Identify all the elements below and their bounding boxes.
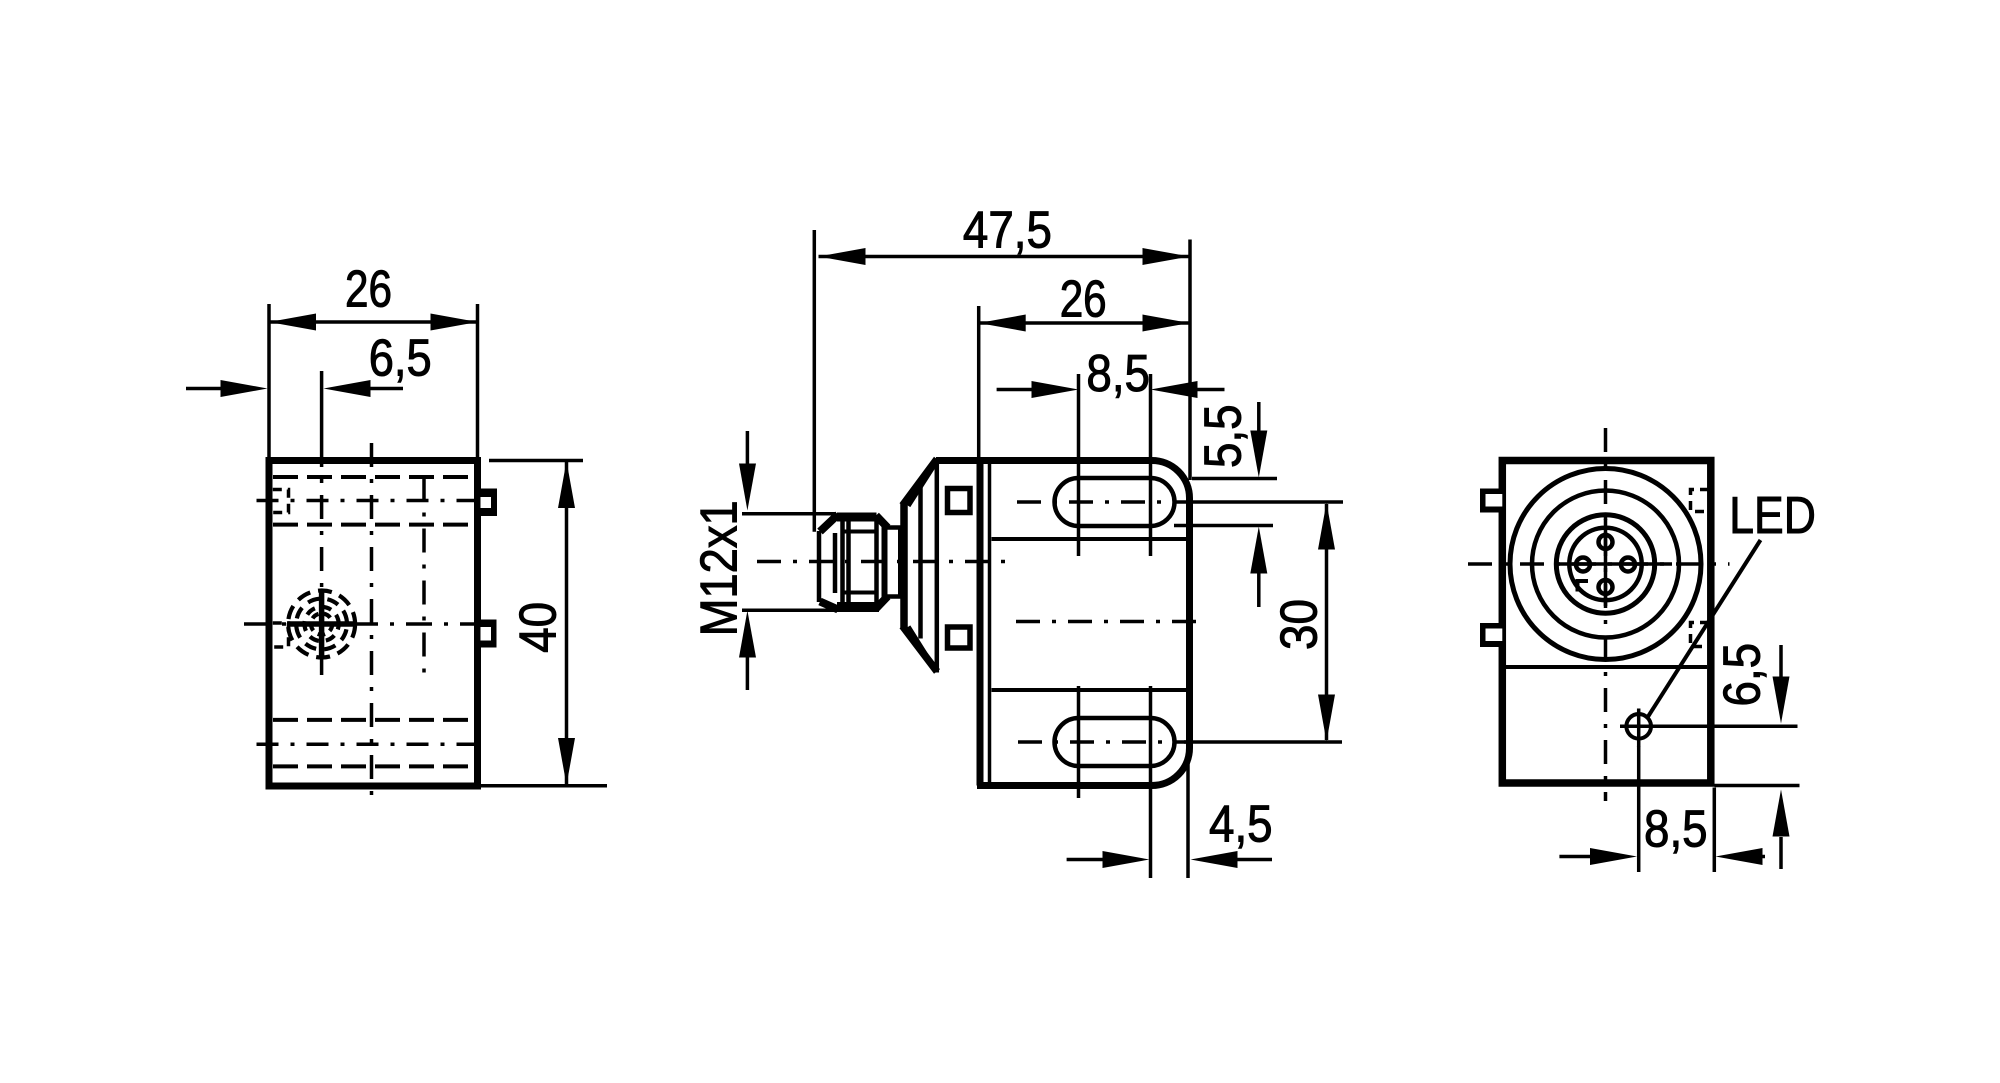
M12 nut chamfer diagonals xyxy=(820,515,888,610)
solid tab lower right edge xyxy=(478,620,497,648)
bracket left edge xyxy=(977,461,984,786)
dim 4.5 extension lines xyxy=(1186,758,1190,878)
hidden edge (dashed) upper xyxy=(273,475,475,479)
dim M12x1 arrows xyxy=(746,431,750,466)
rear view box xyxy=(1502,461,1711,784)
centerline vertical right xyxy=(422,477,426,674)
hidden edge (dashed) lower 2 xyxy=(273,764,475,768)
connector cap inner vertical xyxy=(918,479,923,639)
dim 26 line xyxy=(269,320,478,324)
dim 30 line xyxy=(1325,504,1329,740)
dim 26 extension line xyxy=(977,306,981,458)
M12 nut top/bottom faces xyxy=(837,517,877,607)
M12 nut right band xyxy=(882,527,888,597)
svg-text:LED: LED xyxy=(1729,486,1816,544)
connector circle inner xyxy=(1569,528,1641,600)
dim 6.5 arrow to centerline xyxy=(370,387,403,391)
circle center cross xyxy=(287,589,356,659)
mounting slot upper (obround) xyxy=(1055,478,1175,526)
small square lower xyxy=(948,627,971,648)
connector pins xyxy=(1599,535,1613,549)
hidden tab marks right edge lower xyxy=(1691,623,1710,647)
bracket inner horizontal upper xyxy=(992,537,1187,541)
bracket inner left line xyxy=(988,463,992,783)
dim 26 arrowheads xyxy=(979,315,1190,332)
dim M12x1 extension lines xyxy=(742,514,879,611)
svg-text:6,5: 6,5 xyxy=(1713,643,1771,707)
dim 4.5 arrows xyxy=(1067,858,1104,862)
svg-text:40: 40 xyxy=(508,602,566,653)
M12 neck xyxy=(884,528,903,597)
solid tab lower left edge xyxy=(1480,623,1502,647)
svg-text:5,5: 5,5 xyxy=(1194,404,1252,468)
dim 26 extension lines xyxy=(269,304,478,457)
LED leader line xyxy=(1647,540,1761,719)
svg-text:4,5: 4,5 xyxy=(1209,795,1273,853)
connector cap outer profile xyxy=(903,459,938,672)
body axis centerline xyxy=(1016,620,1197,624)
dim 5.5 arrows xyxy=(1257,402,1261,432)
hidden tab marks left edge upper xyxy=(273,490,289,513)
sensing face concentric dashed circles xyxy=(288,591,355,658)
dim 47.5 extension lines xyxy=(814,230,1190,532)
slot axis centerline upper xyxy=(1017,500,1188,504)
dim 30 arrowheads xyxy=(1318,503,1335,742)
LED cross xyxy=(1620,709,1662,748)
dim 47.5 line xyxy=(819,255,1190,259)
connector keying notch xyxy=(1578,581,1589,592)
small square upper xyxy=(948,489,971,513)
svg-text:30: 30 xyxy=(1270,599,1328,650)
dim 8.5 arrows xyxy=(1559,855,1591,859)
dim 40 line xyxy=(565,461,569,785)
dim 40 arrowheads xyxy=(558,461,575,785)
centerline horizontal middle xyxy=(244,622,481,626)
connector circle outer xyxy=(1510,469,1701,660)
body/bracket outline with rounded right corners xyxy=(936,461,1190,786)
svg-text:M12x1: M12x1 xyxy=(690,500,748,636)
svg-text:26: 26 xyxy=(345,260,392,318)
dim 47.5 arrowheads xyxy=(819,248,1190,265)
box bottom extension line xyxy=(1715,784,1800,788)
centerline horizontal upper xyxy=(257,499,498,503)
LED indicator circle xyxy=(1626,714,1651,739)
LED extension line right xyxy=(1660,725,1798,729)
dim 40 extension lines xyxy=(481,461,607,786)
centerline vertical middle xyxy=(370,443,374,806)
sensor body outline (front/top view box) xyxy=(269,461,478,787)
hidden edge (dashed) lower xyxy=(273,718,475,722)
inner step line xyxy=(1506,665,1707,669)
centerline horizontal lower xyxy=(257,742,489,746)
dim 5.5 extension lines xyxy=(1174,479,1277,526)
connector cap inner slants xyxy=(909,465,935,668)
connector axis centerline xyxy=(757,560,1008,564)
bracket inner horizontal lower xyxy=(992,688,1187,692)
slot axis centerline lower xyxy=(1018,740,1188,744)
solid tab upper left edge xyxy=(1480,489,1502,513)
svg-text:47,5: 47,5 xyxy=(963,201,1052,259)
slot center vertical lines xyxy=(1079,374,1151,878)
svg-text:8,5: 8,5 xyxy=(1086,344,1150,402)
svg-text:26: 26 xyxy=(1060,269,1107,327)
M12 plug left face xyxy=(817,531,822,602)
cap base vertical xyxy=(935,459,940,673)
svg-text:6,5: 6,5 xyxy=(369,328,432,386)
dim 8.5 extension lines xyxy=(1639,746,1715,872)
centerline horizontal xyxy=(1468,562,1730,566)
hidden tab marks left edge lower xyxy=(273,623,289,647)
mounting slot lower (obround) xyxy=(1055,718,1175,766)
M12 nut facet lines xyxy=(841,532,875,593)
dim 8.5 arrows xyxy=(997,388,1033,392)
dim 26 line xyxy=(979,321,1190,325)
centerline vertical at 6.5 offset xyxy=(320,371,324,443)
svg-text:8,5: 8,5 xyxy=(1644,800,1708,858)
solid tab upper right edge xyxy=(478,489,497,517)
dim 26 arrowheads xyxy=(269,314,478,331)
connector circle 3 xyxy=(1556,515,1654,613)
centerline vertical xyxy=(1604,428,1608,801)
connector circle 2 xyxy=(1532,491,1679,638)
hidden edge (dashed) upper 2 xyxy=(273,523,475,527)
hidden tab marks right edge upper xyxy=(1691,490,1710,512)
dim 6.5 outside arrow left xyxy=(186,387,223,391)
dim 6.5 arrows xyxy=(1779,645,1783,677)
